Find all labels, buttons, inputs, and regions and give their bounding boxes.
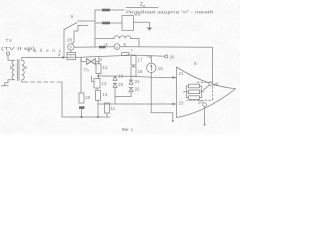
current source G15 [147, 63, 156, 72]
switch S9 blade [64, 23, 77, 30]
resistor R18 [131, 67, 136, 76]
fuse F1 [102, 9, 110, 12]
node junction dot R12 [97, 75, 99, 77]
svg-text:2б: 2б [213, 82, 218, 87]
output circle 10 [203, 103, 207, 107]
wire top right down to switch [212, 47, 214, 81]
resistor Rb [189, 90, 200, 94]
wire R17 top [133, 54, 135, 57]
switch wiper arrow [203, 85, 209, 90]
wire TA out [96, 56, 100, 62]
svg-text:21: 21 [135, 79, 140, 84]
wire VD22 bottom [130, 92, 132, 97]
wire bottom rail [62, 116, 110, 118]
svg-text:14: 14 [103, 92, 108, 97]
switch S9 contact 1 [78, 20, 95, 22]
wire G15 bottom [150, 73, 152, 78]
wire feedback from G15 down [151, 77, 173, 120]
wire cable core [28, 56, 67, 58]
coil 4 [95, 36, 139, 39]
node label 9 [71, 14, 74, 19]
node label 23 input [179, 100, 184, 105]
svg-text:12: 12 [103, 65, 108, 70]
svg-text:К а б е л ь: К а б е л ь [28, 48, 63, 53]
resistor R12 [96, 64, 101, 74]
wire switch common down [63, 30, 65, 58]
svg-text:8: 8 [194, 61, 197, 66]
diode VD21 [129, 80, 133, 84]
svg-text:22: 22 [135, 87, 140, 92]
wire bottom input [98, 103, 176, 105]
svg-text:ТV: ТV [6, 38, 13, 44]
wire output down [204, 106, 206, 124]
voltmeter V5 [114, 44, 120, 50]
transformer TV secondary winding 2 [22, 60, 24, 80]
node label 2 [25, 65, 28, 70]
wire R11 bottom [106, 113, 108, 117]
wire sheath down [61, 82, 63, 117]
wire bank right rail [200, 86, 202, 98]
wire W1 to amp top input [99, 76, 177, 78]
voltmeter V 2б [68, 44, 74, 50]
svg-text:18: 18 [138, 69, 143, 74]
wire winding2 top to cable core [22, 58, 28, 61]
svg-text:20: 20 [118, 82, 123, 87]
resistor Ra [189, 84, 200, 88]
svg-text:Фиг. 1: Фиг. 1 [122, 127, 134, 132]
filter box 3 [67, 52, 76, 59]
wire G15 top [150, 56, 152, 63]
resistor R7 [122, 53, 130, 56]
ground left [1, 85, 8, 87]
svg-text:↓4: ↓4 [103, 42, 108, 47]
svg-text:23: 23 [179, 100, 184, 105]
resistor R17 [131, 56, 136, 65]
switch wiper circle 24 [209, 82, 212, 85]
svg-text:15: 15 [158, 66, 163, 71]
svg-text:V: V [69, 45, 72, 50]
svg-text:26: 26 [170, 54, 175, 59]
resistor R14 [96, 90, 101, 100]
terminal top left [6, 52, 9, 55]
svg-text:ТА: ТА [84, 68, 90, 73]
node junction dot R14 bottom [97, 116, 99, 118]
transformer core [16, 60, 18, 81]
node label 4b [100, 57, 103, 62]
wire cable core right [81, 55, 165, 57]
svg-text:2б: 2б [67, 38, 72, 43]
wire Zи underline [126, 7, 158, 9]
wire terminal to winding [8, 55, 15, 60]
transformer TV primary winding 1 [12, 60, 14, 80]
wire KV to ground [134, 22, 150, 27]
wire long rail right [120, 46, 212, 49]
wire voltmeter 2б to rail [74, 46, 114, 49]
wire voltmeter 2б down to box [70, 50, 72, 52]
fuse F2 [102, 22, 110, 25]
amp bottom input arrow [173, 103, 177, 106]
ground right of KV [147, 28, 153, 31]
node label 5 [124, 42, 127, 47]
diode VD22 [129, 88, 133, 92]
svg-text:9: 9 [71, 14, 74, 19]
wire winding1 bottom to ground [5, 80, 15, 86]
resistor R11 [105, 103, 110, 113]
wire R12-R13 [98, 74, 100, 79]
wire winding2 bottom to sheath [22, 80, 24, 82]
node junction 2 dot [62, 57, 64, 59]
resistor Rc [189, 96, 200, 100]
fuse F3 on rail [99, 46, 106, 48]
wire diode bottoms join [115, 96, 131, 98]
relay KV box [122, 16, 134, 31]
wire cap down [81, 109, 83, 117]
wire left branch down [80, 58, 82, 94]
svg-text:19: 19 [118, 74, 123, 79]
node label 2 on cable [58, 52, 61, 57]
node label 8 [194, 61, 197, 66]
resistor R13 [94, 79, 100, 89]
node label TA [84, 68, 90, 73]
resistor R18b left [79, 93, 84, 103]
wire VD21 top [130, 76, 132, 80]
svg-text:21: 21 [179, 71, 184, 76]
wire coil down to rail [138, 39, 140, 47]
node dot output [204, 124, 206, 126]
node relay protection text [126, 9, 214, 15]
node dot feedback [172, 120, 174, 122]
svg-text:V: V [115, 44, 118, 49]
switch S9 contact 2 [78, 25, 88, 27]
svg-text:KV: KV [135, 12, 141, 17]
op-amp U8 triangle [177, 67, 236, 118]
node label 21 input [179, 71, 184, 76]
node Фиг label [122, 127, 134, 132]
terminal 26 [165, 55, 168, 58]
wire VD20 down [114, 88, 116, 105]
node Zи label [140, 2, 145, 8]
wire bus vertical [94, 10, 96, 47]
wire bank left rail [186, 86, 188, 98]
node label ~u [147, 54, 152, 59]
wire bank right to circle [202, 91, 204, 93]
wire box to TA [76, 57, 87, 61]
svg-text:17: 17 [138, 58, 143, 63]
diode VD20 [113, 83, 117, 87]
node TV label [6, 38, 13, 44]
svg-text:10: 10 [198, 99, 203, 104]
node Кабель label [28, 48, 63, 53]
node label arrow 4 [103, 42, 108, 47]
capacitor blob [79, 106, 85, 109]
node label 2б [67, 38, 72, 43]
node label 1 [10, 65, 13, 70]
node KV label [135, 12, 141, 17]
diode VD19 [113, 76, 117, 80]
svg-text:11: 11 [111, 106, 116, 111]
amp top input arrow [173, 76, 177, 79]
wire R17-R18 [133, 65, 135, 67]
current transformer TA bowtie [87, 59, 96, 65]
resistor bank box dashed [187, 82, 213, 100]
wire stub2 [95, 22, 122, 24]
node junction dot bottom [80, 116, 82, 118]
wire cable sheath dashed [24, 81, 62, 83]
svg-text:18: 18 [85, 95, 90, 100]
wire stub1 [95, 9, 124, 11]
wire R13-R14 [96, 88, 98, 90]
svg-text:13: 13 [102, 81, 107, 86]
wire TA to R12 [98, 62, 100, 64]
node TV II kv label [1, 46, 36, 51]
wire to voltmeter 2б [72, 26, 78, 44]
wire R14 down to bottom [97, 100, 99, 117]
